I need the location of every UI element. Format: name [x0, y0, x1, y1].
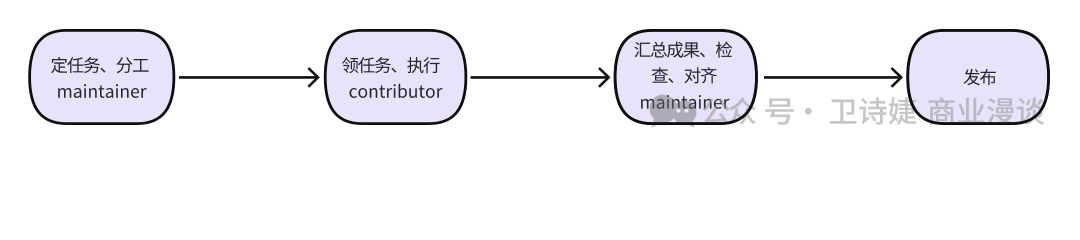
watermark logo (two chat bubbles) — [650, 95, 697, 128]
node: N2 领任务、执行 contributor — [325, 30, 466, 123]
node N3 text line 3: maintainer — [641, 95, 729, 109]
node: N4 发布 — [908, 30, 1049, 123]
node: N3 汇总成果、检查、对齐 maintainer — [615, 30, 756, 123]
node N2 text line 1: 领任务、执行 — [342, 57, 440, 73]
watermark text: 号 — [765, 99, 794, 125]
arrow 1 — [179, 68, 318, 87]
watermark text: 公众 — [703, 97, 757, 125]
node N3 text line 2: 查、对齐 — [652, 67, 717, 83]
node N1 text line 1: 定任务、分工 — [51, 57, 149, 73]
node N3 text line 1: 汇总成果、检 — [635, 42, 733, 58]
arrow 3 — [764, 68, 901, 87]
node: N1 定任务、分工 maintainer — [30, 30, 174, 123]
node N4 text: 发布 — [964, 69, 996, 85]
arrow 2 — [471, 68, 609, 87]
watermark text: 卫诗婕 — [830, 97, 917, 124]
node N2 text line 2: contributor — [350, 84, 443, 98]
node N3 border redraw (over watermark) — [615, 30, 756, 123]
node N1 text line 2: maintainer — [58, 84, 146, 98]
node N4 border redraw (over watermark) — [908, 30, 1049, 123]
watermark middle dot — [805, 108, 812, 115]
watermark text: 商业漫谈 — [929, 97, 1045, 125]
